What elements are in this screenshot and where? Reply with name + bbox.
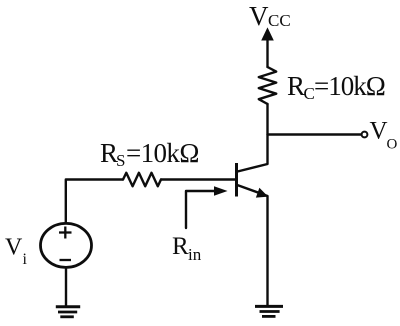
- svg-text:V: V: [5, 235, 23, 261]
- svg-text:i: i: [23, 251, 28, 268]
- svg-text:R: R: [172, 233, 189, 260]
- svg-text:=10kΩ: =10kΩ: [126, 138, 199, 168]
- svg-text:CC: CC: [268, 11, 291, 30]
- svg-text:S: S: [116, 151, 125, 170]
- svg-text:in: in: [188, 245, 202, 264]
- svg-text:O: O: [387, 137, 398, 153]
- svg-text:V: V: [249, 1, 269, 31]
- svg-text:V: V: [370, 118, 388, 145]
- svg-text:=10kΩ: =10kΩ: [314, 71, 385, 101]
- svg-text:R: R: [287, 71, 305, 101]
